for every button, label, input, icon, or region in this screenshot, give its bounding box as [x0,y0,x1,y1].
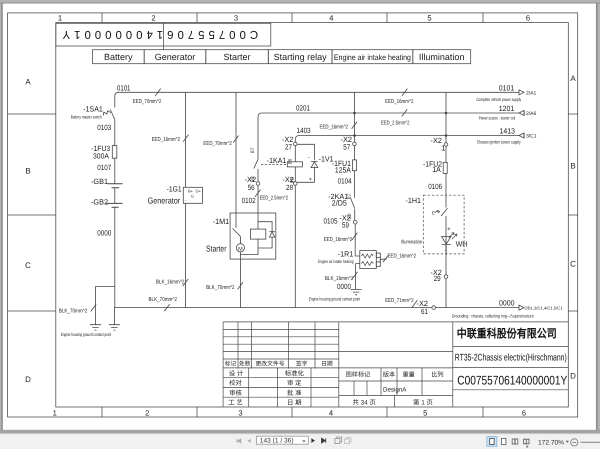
cable slash BLK_16 heater gnd [352,272,357,279]
battery -GB1 [108,184,123,188]
svg-text:56: 56 [248,183,255,192]
svg-text:+: + [309,177,313,183]
svg-text:Engine housing ground contact: Engine housing ground contact point [61,332,112,337]
svg-text:6: 6 [522,409,526,418]
svg-text:1201: 1201 [499,104,515,113]
terminal -X2:27 [294,142,298,146]
grid reference numbers top [58,13,530,22]
cable slash EED_70 starter [233,136,238,143]
btn last page [322,438,326,443]
icon single page outline [502,438,506,444]
svg-text:-GB1: -GB1 [91,177,108,186]
svg-text:Engine air intake heating: Engine air intake heating [334,53,411,62]
junction dot 1201/right [445,112,448,115]
middle section text [346,370,444,378]
svg-text:2: 2 [151,13,155,22]
titleblock outer lines [223,322,568,407]
dashed link -1KA1 [261,164,287,166]
zoom out button [571,439,578,446]
svg-text:D: D [25,375,31,384]
grid reference letters left [25,78,31,385]
larger device names [148,196,227,254]
ground symbol battery right [109,325,120,330]
starter motor M [236,244,244,252]
cable slash BLK_70 battery gnd [91,304,96,311]
svg-text:Generator: Generator [155,52,196,62]
TOOLBAR [237,436,600,447]
svg-text:172.70%: 172.70% [538,440,564,447]
svg-text:共 34 页: 共 34 页 [352,398,375,406]
svg-text:5: 5 [423,409,427,418]
svg-text:Battery master switch: Battery master switch [71,115,102,120]
svg-text:M: M [238,246,243,252]
rotated pin numbers [185,147,451,254]
svg-text:D+: D+ [196,188,202,193]
svg-text:中联重科股份有限公司: 中联重科股份有限公司 [457,326,557,340]
svg-text:-: - [308,155,310,161]
svg-text:4: 4 [329,409,333,418]
arrow 1413 from 3/C1 [519,133,524,138]
svg-text:1: 1 [53,409,57,418]
cable slash EED_2.5 right [402,109,407,116]
terminal -X2:59 [353,220,357,224]
lamp switch internal [435,208,448,216]
heater resistor element 2 [361,262,373,266]
icon single page (active, blue) [487,437,497,447]
svg-text:Engine air intake heating: Engine air intake heating [318,259,354,264]
svg-text:1403: 1403 [297,126,311,135]
svg-text:0102: 0102 [242,196,256,205]
revision table columns [238,322,315,369]
heater resistor element 1 [361,254,373,258]
lamp dashed box -1H1 [423,195,464,254]
svg-text:批 准: 批 准 [287,389,302,397]
svg-text:审 定: 审 定 [287,379,302,387]
wire starter feed [235,92,237,213]
company row line [453,347,569,390]
arrow 0000 ground bus [519,305,524,310]
svg-text:86: 86 [288,158,294,164]
svg-text:0000: 0000 [97,229,111,238]
starter switch internal [233,213,241,244]
svg-text:E: E [432,210,435,215]
cable type labels [59,99,416,315]
generator -1G1 box [183,187,202,203]
revision table thin rows [223,329,339,359]
wire mid column (X2:57/1FU1/2KA1) [355,92,360,256]
svg-text:Starter: Starter [206,244,227,254]
cable slash EED_70 bus [155,89,160,96]
svg-text:D: D [570,372,576,381]
junction dot 1413/right [445,134,448,137]
LED arrows [449,233,457,240]
switch -1SA1 battery master [103,110,115,120]
svg-text:BLK_70mm^2: BLK_70mm^2 [149,297,178,303]
svg-text:Battery: Battery [104,52,133,62]
svg-text:Illumination: Illumination [401,240,422,246]
icon clipboard (disabled) [345,438,351,444]
starter coil internal [250,229,265,239]
rotated document number box [56,23,271,50]
cable slash EED_71 ground bus [412,300,417,307]
terminal -X2:29 [444,275,448,279]
svg-text:0104: 0104 [338,176,352,185]
wire ground bus [115,210,519,308]
heater connector brackets [376,253,380,257]
svg-text:C00755706140000001Y: C00755706140000001Y [59,28,259,40]
svg-text:2/A1: 2/A1 [526,90,537,96]
svg-text:29: 29 [434,274,441,283]
svg-text:0201: 0201 [296,103,310,112]
svg-text:EED_70mm^2: EED_70mm^2 [133,99,162,105]
svg-text:2/B1,3/C1,4/C1,5/C1: 2/B1,3/C1,4/C1,5/C1 [525,306,564,311]
svg-text:Starter: Starter [223,52,250,62]
terminal -X2:61 [432,306,436,310]
fuse -1FU2 [443,163,447,174]
cable slash BLK_70 gnd bus mid [164,304,169,311]
svg-text:2/A6: 2/A6 [526,111,537,117]
junction dot 0201/mid [353,112,356,115]
svg-text:59: 59 [342,221,349,230]
svg-text:EED_16mm^2: EED_16mm^2 [320,124,349,130]
cable slash BLK_16 gen gnd [183,279,188,286]
btn next page [311,438,315,443]
svg-text:85: 85 [290,177,296,183]
right row ticks [568,114,577,311]
switch contact -2KA1 [351,199,355,209]
svg-text:B: B [570,162,575,171]
tiny descriptions [61,90,563,337]
svg-text:标准化: 标准化 [285,369,305,377]
wire 1403 line [295,136,519,143]
icon facing pages [512,439,518,444]
arrow 1201 from 2/A6 [519,111,524,116]
svg-text:27: 27 [285,143,292,152]
svg-text:1: 1 [441,143,445,152]
svg-text:A: A [25,78,31,87]
svg-text:0107: 0107 [97,163,111,172]
svg-text:4: 4 [329,13,333,22]
terminal -X2:56 [256,182,260,186]
top column ticks [102,13,483,23]
svg-text:C: C [25,261,31,270]
svg-text:BLK_16mm^2: BLK_16mm^2 [325,276,354,282]
terminal -X2:57 [353,142,357,146]
svg-text:工 艺: 工 艺 [228,399,243,407]
wire 1201 line [258,113,519,159]
svg-text:0000: 0000 [337,282,351,291]
svg-text:G: G [191,194,194,199]
svg-text:第 1 页: 第 1 页 [413,398,433,406]
svg-text:-1H1: -1H1 [406,196,422,205]
svg-text:EED_70mm^2: EED_70mm^2 [203,141,232,147]
svg-text:EED_16mm^2: EED_16mm^2 [152,137,181,143]
terminal -X2:28 [294,182,298,186]
diode -1V1 loop [297,144,314,182]
relay coil -1KA1 [287,162,302,167]
battery -GB2 [106,203,123,207]
svg-text:6: 6 [526,13,530,22]
ground symbol heater [351,289,362,294]
svg-text:1413: 1413 [500,126,516,135]
svg-text:DesignA: DesignA [383,387,407,394]
svg-text:EED_16mm^2: EED_16mm^2 [385,99,414,105]
icon snapshot [335,437,342,444]
svg-text:-1KA1: -1KA1 [267,156,287,165]
svg-text:比列: 比列 [431,370,443,378]
svg-text:更改文件号: 更改文件号 [256,361,285,368]
svg-text:Complete vehicle power supply: Complete vehicle power supply [476,97,521,102]
shared row lines [223,352,453,398]
wire heater ground [356,264,360,290]
svg-text:87: 87 [250,147,256,153]
wire chassis ground drop [113,308,115,325]
svg-text:B: B [25,167,30,176]
svg-text:1A: 1A [432,165,441,174]
design section columns [249,368,311,407]
wire relay coil ground [294,185,296,307]
toolbar background [0,434,600,449]
cable slash EED_16 heater feed [352,233,357,240]
svg-text:C00755706140000001Y: C00755706140000001Y [457,374,567,388]
svg-text:WH: WH [456,239,468,248]
cable slash EED_2.5 solenoid [255,190,260,197]
fuse -1FU1 [353,160,357,171]
svg-text:Starting relay: Starting relay [274,52,328,62]
svg-text:125A: 125A [335,165,352,174]
design rows text [228,369,304,406]
svg-text:EED_71mm^2: EED_71mm^2 [385,298,414,304]
svg-text:30: 30 [250,176,256,182]
svg-text:Chassis ignition power supply: Chassis ignition power supply [477,139,522,144]
terminal -X2:1 [444,143,448,147]
svg-text:BLK_70mm^2: BLK_70mm^2 [59,309,88,315]
left row ticks [8,114,56,311]
svg-text:-1M1: -1M1 [213,217,230,226]
svg-text:日 期: 日 期 [287,399,302,407]
page combo box [257,436,309,444]
svg-text:BLK_70mm^2: BLK_70mm^2 [206,285,235,291]
svg-text:Illumination: Illumination [419,52,465,62]
svg-text:0106: 0106 [428,182,442,191]
wire right column (X2:1/1FU2/lamp) [445,92,447,307]
cable slash EED_16 heater right [383,255,388,262]
relay contact -1KA1 (87/30) [254,159,258,168]
ground symbol battery left [90,325,101,330]
svg-text:2: 2 [145,409,149,418]
svg-text:EED_16mm^2: EED_16mm^2 [324,237,353,243]
schematic text labels [83,83,515,316]
cable slash EED_16 gen [183,135,188,142]
starter diode internal [269,232,274,237]
svg-text:Grounding : chassis, collectin: Grounding : chassis, collecting ring—Sup… [452,314,534,319]
svg-text:30: 30 [347,213,353,219]
btn first page [237,439,241,442]
revision header row text [225,361,333,368]
svg-text:57: 57 [343,143,350,152]
zoom slider track [581,441,600,443]
svg-text:3/C1: 3/C1 [526,134,537,140]
svg-text:2/D5: 2/D5 [332,198,347,207]
svg-text:图样标记: 图样标记 [346,370,371,378]
svg-text:0101: 0101 [499,83,515,92]
inner border frame [56,23,569,408]
TITLEBLOCK [223,322,568,407]
function header boxes [93,50,471,64]
btn prev page [248,439,251,443]
svg-text:Engine housing ground contact: Engine housing ground contact point [309,296,361,301]
svg-text:+: + [447,226,451,233]
svg-text:标记: 标记 [225,361,237,368]
svg-text:1: 1 [58,13,62,22]
svg-text:Power source : starter coil: Power source : starter coil [479,116,516,121]
heater -1R1 box [360,251,377,269]
svg-text:61: 61 [421,307,428,316]
wire battery ground branch [96,287,115,325]
svg-text:-1SA1: -1SA1 [83,105,103,114]
wire starter ground [239,259,241,308]
svg-text:设 计: 设 计 [229,369,244,377]
svg-text:-GB2: -GB2 [91,197,108,206]
svg-text:3: 3 [234,13,238,22]
svg-text:重量: 重量 [403,370,415,378]
arrow 0101 to 2/A1 [519,90,524,95]
svg-text:300A: 300A [93,152,110,161]
junction dot 1403/mid [353,134,356,137]
svg-text:5: 5 [427,13,431,22]
svg-text:0103: 0103 [97,123,111,132]
fuse -1FU3 [112,146,117,159]
grid reference numbers bottom [53,409,527,418]
svg-text:-1R1: -1R1 [338,249,354,258]
wire generator ground [185,203,187,307]
svg-text:87: 87 [347,193,353,199]
svg-text:3: 3 [238,409,242,418]
cable slash EED_16 mid [352,122,357,129]
svg-text:EED_2.5mm^2: EED_2.5mm^2 [260,196,289,202]
svg-text:日期: 日期 [321,361,333,368]
bottom column ticks [102,407,483,417]
svg-text:Generator: Generator [148,196,181,206]
svg-text:0101: 0101 [117,83,130,92]
cable slash BLK_70 starter gnd [238,282,243,289]
wire bus 0101 [115,92,519,107]
svg-text:EED_16mm^2: EED_16mm^2 [388,254,417,260]
svg-text:校对: 校对 [229,379,242,387]
cable slash EED_16 bus right [402,89,407,96]
svg-text:BLK_16mm^2: BLK_16mm^2 [156,279,185,285]
page edge shading [1,3,3,430]
lamp LED -1H1 [442,236,451,244]
starter box -1M1 [230,213,276,259]
svg-text:EED_2.5mm^2: EED_2.5mm^2 [381,121,410,127]
zoom dropdown caret [566,441,569,443]
wire generator feed [185,92,187,187]
svg-text:RT35-2Chassis electric(Hirschm: RT35-2Chassis electric(Hirschmann) [455,352,567,363]
grid reference letters right [570,74,576,381]
svg-text:审核: 审核 [229,389,242,397]
diode -1V1 [311,161,318,167]
svg-text:143 (1 / 36): 143 (1 / 36) [260,438,294,445]
svg-text:28: 28 [286,183,293,192]
middle section columns [354,368,422,407]
icon book view [524,439,529,447]
svg-text:版本: 版本 [383,370,395,378]
svg-text:C: C [570,260,576,269]
svg-text:0000: 0000 [499,298,515,307]
wire 0102 starter solenoid [257,169,259,213]
wire -1KA1 coil stubs [294,146,296,182]
svg-text:-1G1: -1G1 [167,185,182,194]
svg-text:0105: 0105 [324,216,338,225]
svg-text:处数: 处数 [239,361,251,368]
svg-text:签字: 签字 [296,361,308,368]
svg-text:A: A [570,74,576,83]
